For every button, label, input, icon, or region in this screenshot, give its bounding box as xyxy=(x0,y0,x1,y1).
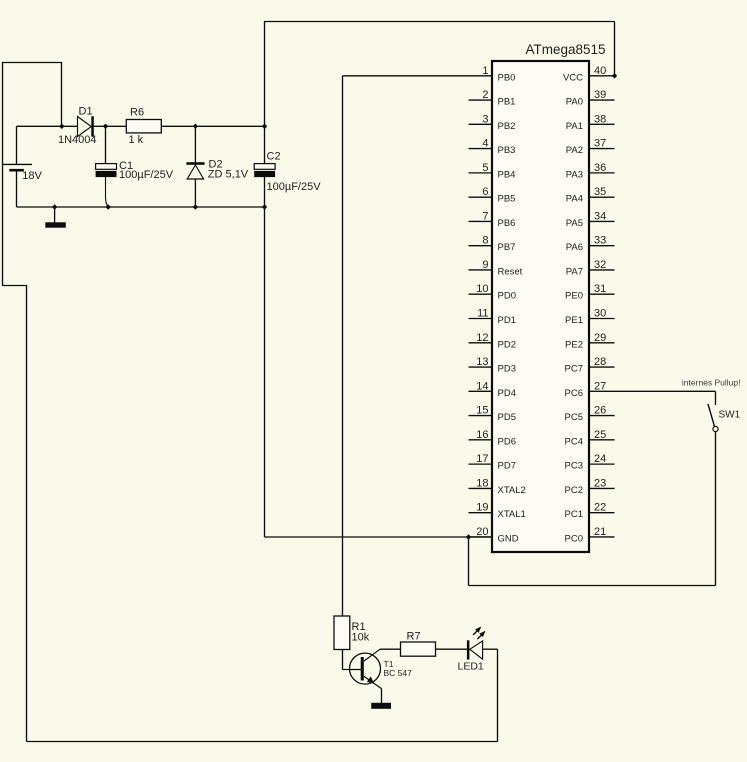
svg-text:XTAL1: XTAL1 xyxy=(498,509,526,520)
svg-text:36: 36 xyxy=(594,162,606,174)
svg-text:10: 10 xyxy=(476,283,488,295)
svg-text:18V: 18V xyxy=(22,170,42,182)
svg-text:PE1: PE1 xyxy=(565,315,583,326)
svg-text:R6: R6 xyxy=(130,106,144,118)
svg-text:35: 35 xyxy=(594,186,606,198)
svg-text:4: 4 xyxy=(482,138,488,150)
svg-text:8: 8 xyxy=(482,235,488,247)
svg-text:ZD 5,1V: ZD 5,1V xyxy=(208,169,249,181)
svg-text:1N4004: 1N4004 xyxy=(58,134,97,146)
svg-text:PD7: PD7 xyxy=(498,461,516,472)
svg-text:33: 33 xyxy=(594,235,606,247)
svg-text:Reset: Reset xyxy=(498,266,523,277)
svg-text:PC7: PC7 xyxy=(565,364,583,375)
svg-text:PA7: PA7 xyxy=(566,266,583,277)
svg-text:15: 15 xyxy=(476,405,488,417)
svg-text:PD5: PD5 xyxy=(498,412,516,423)
svg-text:PD1: PD1 xyxy=(498,315,516,326)
svg-text:PD3: PD3 xyxy=(498,364,516,375)
svg-text:PD4: PD4 xyxy=(498,388,516,399)
svg-text:PA5: PA5 xyxy=(566,218,583,229)
svg-text:PC5: PC5 xyxy=(565,412,583,423)
svg-text:6: 6 xyxy=(482,186,488,198)
svg-text:27: 27 xyxy=(594,380,606,392)
svg-text:D1: D1 xyxy=(79,105,93,117)
svg-text:GND: GND xyxy=(498,533,519,544)
svg-text:SW1: SW1 xyxy=(719,410,741,421)
svg-text:16: 16 xyxy=(476,429,488,441)
svg-text:LED1: LED1 xyxy=(458,661,484,673)
svg-text:18: 18 xyxy=(476,477,488,489)
svg-text:3: 3 xyxy=(482,113,488,125)
svg-text:BC 547: BC 547 xyxy=(384,668,413,678)
svg-text:PA4: PA4 xyxy=(566,194,583,205)
svg-text:5: 5 xyxy=(482,162,488,174)
svg-text:19: 19 xyxy=(476,502,488,514)
svg-text:32: 32 xyxy=(594,259,606,271)
svg-text:39: 39 xyxy=(594,89,606,101)
svg-text:PC0: PC0 xyxy=(565,533,583,544)
svg-text:VCC: VCC xyxy=(563,72,583,83)
svg-text:2: 2 xyxy=(482,89,488,101)
svg-text:21: 21 xyxy=(594,526,606,538)
svg-text:PB7: PB7 xyxy=(498,242,516,253)
svg-text:PD0: PD0 xyxy=(498,291,516,302)
svg-text:100µF/25V: 100µF/25V xyxy=(119,169,174,181)
svg-text:28: 28 xyxy=(594,356,606,368)
svg-text:34: 34 xyxy=(594,210,606,222)
svg-text:PC4: PC4 xyxy=(565,436,583,447)
svg-text:20: 20 xyxy=(476,526,488,538)
svg-text:14: 14 xyxy=(476,380,488,392)
svg-text:17: 17 xyxy=(476,453,488,465)
svg-text:PC1: PC1 xyxy=(565,509,583,520)
svg-text:PE0: PE0 xyxy=(565,291,583,302)
svg-text:25: 25 xyxy=(594,429,606,441)
svg-text:PA0: PA0 xyxy=(566,97,583,108)
svg-text:23: 23 xyxy=(594,477,606,489)
svg-text:PA6: PA6 xyxy=(566,242,583,253)
svg-text:PB6: PB6 xyxy=(498,218,516,229)
svg-text:37: 37 xyxy=(594,138,606,150)
svg-text:PB2: PB2 xyxy=(498,121,516,132)
svg-text:22: 22 xyxy=(594,502,606,514)
svg-text:100µF/25V: 100µF/25V xyxy=(267,181,322,193)
svg-text:26: 26 xyxy=(594,405,606,417)
svg-text:1: 1 xyxy=(482,65,488,77)
svg-text:PA1: PA1 xyxy=(566,121,583,132)
svg-text:PD2: PD2 xyxy=(498,339,516,350)
svg-text:9: 9 xyxy=(482,259,488,271)
svg-text:1 k: 1 k xyxy=(129,134,144,146)
svg-text:30: 30 xyxy=(594,308,606,320)
svg-text:PA2: PA2 xyxy=(566,145,583,156)
svg-text:13: 13 xyxy=(476,356,488,368)
svg-text:7: 7 xyxy=(482,210,488,222)
svg-text:12: 12 xyxy=(476,332,488,344)
svg-text:C2: C2 xyxy=(267,151,281,163)
svg-text:29: 29 xyxy=(594,332,606,344)
svg-text:PA3: PA3 xyxy=(566,169,583,180)
svg-text:ATmega8515: ATmega8515 xyxy=(525,42,605,57)
svg-text:R7: R7 xyxy=(407,631,421,643)
svg-text:11: 11 xyxy=(477,308,488,320)
svg-text:38: 38 xyxy=(594,113,606,125)
svg-text:PB3: PB3 xyxy=(498,145,516,156)
svg-text:PC6: PC6 xyxy=(565,388,583,399)
svg-text:PB4: PB4 xyxy=(498,169,516,180)
svg-text:PB0: PB0 xyxy=(498,72,516,83)
svg-text:10k: 10k xyxy=(352,632,370,644)
svg-text:PC2: PC2 xyxy=(565,485,583,496)
svg-text:31: 31 xyxy=(594,283,606,295)
svg-text:24: 24 xyxy=(594,453,606,465)
svg-text:PE2: PE2 xyxy=(565,339,583,350)
svg-text:PC3: PC3 xyxy=(565,461,583,472)
svg-text:40: 40 xyxy=(594,65,606,77)
svg-text:XTAL2: XTAL2 xyxy=(498,485,526,496)
svg-text:internes Pullup!: internes Pullup! xyxy=(682,377,741,387)
svg-text:PB1: PB1 xyxy=(498,97,516,108)
svg-text:PB5: PB5 xyxy=(498,194,516,205)
svg-text:PD6: PD6 xyxy=(498,436,516,447)
